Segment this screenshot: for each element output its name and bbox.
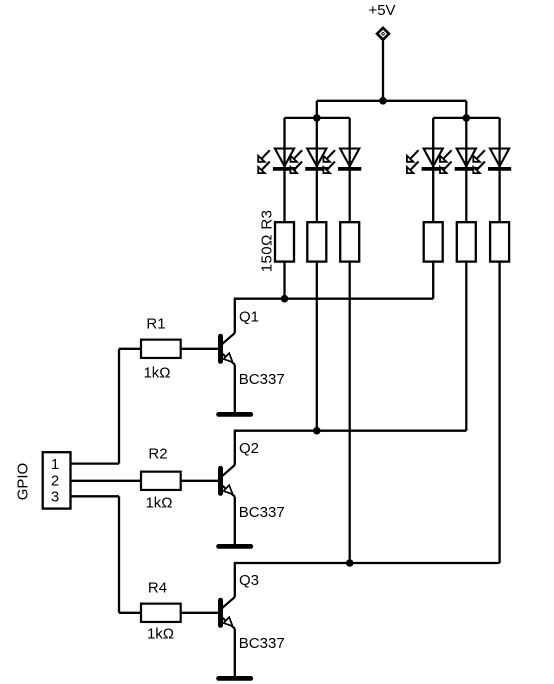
transistor Q3 base bar [218, 600, 223, 625]
transistor Q1 emitter arrow [224, 353, 233, 362]
wire: Q3 collector net horizontal [234, 562, 500, 564]
wire: GPIO pin 1 riser up to R1 [118, 349, 120, 464]
connector GPIO [43, 452, 71, 508]
wire: GPIO pin 2 to R2 [71, 480, 142, 482]
transistor Q3 collector lead [222, 597, 235, 608]
resistor 150Ω (column 5) [457, 222, 476, 261]
wire: GPIO pin 3 riser down to R4 [118, 496, 120, 613]
resistor 150Ω (column 3) [340, 222, 359, 261]
transistor Q2 emitter lead [222, 485, 235, 496]
resistor 150Ω (column 1) [275, 222, 294, 261]
svg-text:Q2: Q2 [239, 440, 259, 457]
wire: R4 to Q3 base [181, 612, 219, 614]
+5V supply symbol [375, 26, 391, 42]
transistor Q1 emitter lead [222, 353, 235, 364]
wire: column 5 resistor to Q2 net [465, 262, 467, 431]
resistor R1 [141, 340, 181, 358]
node: left group rail junction [313, 114, 321, 122]
wire: top horizontal rail [317, 100, 467, 102]
wire: R1 to Q1 base [181, 348, 219, 350]
svg-text:1kΩ: 1kΩ [147, 626, 174, 643]
transistor Q1 collector lead [222, 333, 235, 344]
resistor R2 [141, 472, 181, 490]
wire: Q1 collector riser [234, 299, 236, 333]
svg-text:3: 3 [51, 488, 59, 505]
transistor Q3 emitter arrow [224, 617, 233, 626]
resistor 150Ω (column 6) [490, 222, 509, 261]
LED D6 [473, 149, 511, 174]
ground (Q2 emitter) [219, 544, 251, 549]
svg-text:BC337: BC337 [239, 371, 285, 388]
resistor 150Ω (column 2) [307, 222, 326, 261]
LED D3 [323, 149, 361, 174]
svg-text:GPIO: GPIO [15, 463, 32, 501]
LED D2 [291, 149, 329, 174]
wire: left group rail [285, 117, 350, 119]
svg-text:Q1: Q1 [239, 309, 259, 326]
transistor Q3 emitter lead [222, 617, 235, 628]
svg-text:+5V: +5V [368, 2, 395, 19]
wire: right group rail [433, 117, 499, 119]
LED D4 [407, 149, 445, 174]
wire: Q2 collector riser [234, 431, 236, 465]
wire: GPIO pin 3 horizontal [71, 495, 120, 497]
wire: GPIO pin 1 horizontal [71, 462, 120, 464]
svg-text:R2: R2 [148, 446, 167, 463]
wire: riser to R4 [119, 612, 141, 614]
svg-text:2: 2 [51, 472, 59, 489]
transistor Q2 emitter arrow [224, 485, 233, 494]
LED D5 [440, 149, 478, 174]
svg-text:1kΩ: 1kΩ [145, 495, 172, 512]
wire: anode column 4 (rail to resistor) [432, 118, 434, 222]
wire: Q3 collector riser [234, 563, 236, 597]
wire: anode column 1 (rail to resistor) [283, 118, 285, 222]
svg-text:R4: R4 [148, 580, 167, 597]
wire: column 2 resistor through to Q2 net [316, 262, 318, 431]
resistor R4 [141, 604, 181, 622]
svg-text:Q3: Q3 [239, 572, 259, 589]
node: Q2 net / column 2 junction [313, 427, 321, 435]
wire: Q3 emitter to ground [234, 629, 236, 677]
wire: Q2 emitter to ground [234, 497, 236, 545]
node: Q1 net / column 1 junction [281, 295, 289, 303]
svg-text:1kΩ: 1kΩ [143, 365, 170, 382]
transistor Q1 base bar [218, 336, 223, 361]
svg-text:R1: R1 [146, 316, 165, 333]
transistor Q2 base bar [218, 468, 223, 493]
transistor Q2 collector lead [222, 465, 235, 476]
wire: column 4 resistor to Q1 net [432, 262, 434, 299]
wire: column 3 resistor through to Q3 net [349, 262, 351, 563]
svg-text:1: 1 [51, 456, 59, 473]
wire: anode column 2 (rail to resistor) [316, 118, 318, 222]
node: right group rail junction [463, 114, 471, 122]
wire: anode column 5 (rail to resistor) [465, 118, 467, 222]
svg-text:150Ω R3: 150Ω R3 [259, 210, 276, 273]
wire: left drop to left LED-group rail [316, 101, 318, 118]
wire: R2 to Q2 base [181, 480, 219, 482]
ground (Q1 emitter) [219, 412, 251, 417]
wire: column 6 resistor to Q3 net [498, 262, 500, 563]
wire: anode column 3 (rail to resistor) [349, 118, 351, 222]
ground (Q3 emitter) [219, 676, 251, 681]
wire: Q1 collector net horizontal [234, 298, 433, 300]
wire: Q1 emitter to ground [234, 365, 236, 413]
wire from +5V symbol down to rail [382, 41, 384, 101]
wire: anode column 6 (rail to resistor) [498, 118, 500, 222]
wire: column 1 resistor to Q1 net [283, 262, 285, 299]
node: Q3 net / column 3 junction [346, 559, 354, 567]
resistor 150Ω (column 4) [424, 222, 443, 261]
LED D1 [258, 149, 296, 174]
wire: riser to R1 [119, 348, 141, 350]
svg-text:BC337: BC337 [239, 504, 285, 521]
wire: Q2 collector net horizontal [234, 430, 466, 432]
node: +5V junction [379, 97, 387, 105]
svg-text:BC337: BC337 [239, 635, 285, 652]
wire: right drop to right LED-group rail [465, 101, 467, 118]
